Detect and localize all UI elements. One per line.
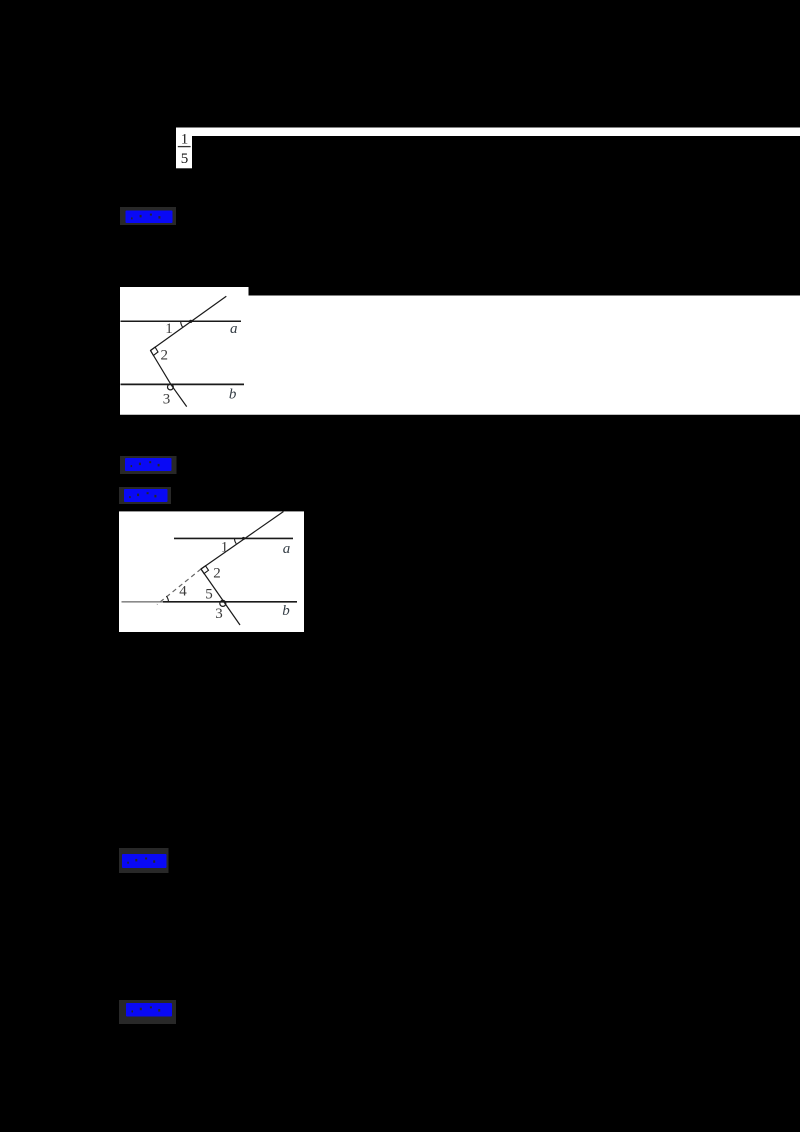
svg-text:3: 3: [163, 392, 171, 408]
svg-text:b: b: [282, 603, 290, 619]
svg-text:2: 2: [213, 566, 221, 582]
svg-text:a: a: [283, 541, 291, 557]
svg-text:1: 1: [221, 540, 229, 556]
svg-text:1: 1: [165, 321, 173, 337]
svg-text:5: 5: [181, 151, 189, 167]
svg-text:3: 3: [215, 606, 223, 622]
svg-text:4: 4: [179, 584, 187, 600]
svg-text:5: 5: [205, 587, 213, 603]
svg-text:1: 1: [181, 131, 189, 147]
svg-text:b: b: [229, 387, 237, 403]
svg-text:2: 2: [161, 348, 169, 364]
svg-text:a: a: [230, 321, 238, 337]
